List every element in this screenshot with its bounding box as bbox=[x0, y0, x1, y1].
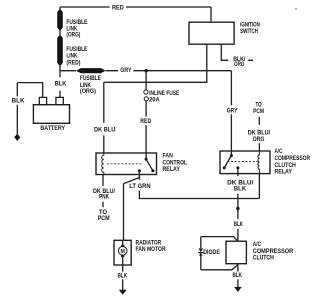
relay K1 pivot contact bbox=[145, 158, 148, 161]
svg-text:(ORG): (ORG) bbox=[66, 32, 80, 39]
wire diode loop bbox=[201, 237, 238, 270]
svg-text:ORG: ORG bbox=[234, 61, 245, 68]
relay K1 output contact bbox=[138, 169, 141, 172]
svg-text:BLK: BLK bbox=[234, 186, 247, 193]
wire between links bbox=[59, 30, 61, 35]
svg-text:RELAY: RELAY bbox=[275, 169, 293, 176]
relay K1 switch lever bbox=[146, 159, 153, 170]
relay K2 lever end contact bbox=[223, 166, 226, 169]
wire ignition to fan relay coil bbox=[104, 44, 207, 153]
svg-text:GRY: GRY bbox=[120, 67, 132, 74]
svg-text:BLK: BLK bbox=[55, 80, 67, 87]
A/C compressor clutch L1 box bbox=[226, 241, 246, 264]
svg-text:BLK: BLK bbox=[118, 273, 128, 280]
A/C compressor clutch relay K2 box bbox=[220, 151, 270, 174]
motor M1 brush top bbox=[121, 245, 124, 247]
wire fuse feed bbox=[145, 71, 147, 160]
relay K2 output contact bbox=[236, 166, 239, 169]
wire battery ground BLK bbox=[17, 83, 42, 135]
node J1 fuse tap bbox=[144, 69, 147, 72]
svg-text:ORG: ORG bbox=[253, 136, 265, 143]
svg-text:BLK: BLK bbox=[234, 221, 243, 228]
wire RED top feed bbox=[60, 7, 211, 22]
relay K2 coil bbox=[258, 151, 259, 174]
svg-text:CLUTCH: CLUTCH bbox=[253, 254, 274, 261]
ground G2 motor bbox=[119, 290, 127, 295]
svg-text:LT GRN: LT GRN bbox=[129, 183, 151, 190]
svg-text:DIODE: DIODE bbox=[203, 249, 220, 256]
wire LT GRN branch bbox=[124, 171, 260, 240]
wire BLK/ORG offpage bbox=[221, 44, 253, 60]
diode D1 bbox=[198, 248, 203, 252]
svg-text:RED: RED bbox=[112, 5, 124, 12]
wire clutch BLK ground bbox=[237, 264, 239, 287]
svg-text:COMPRESSOR: COMPRESSOR bbox=[275, 155, 311, 162]
svg-text:FUSIBLE: FUSIBLE bbox=[80, 75, 101, 82]
radiator fan motor M1 box bbox=[114, 240, 131, 265]
wire motor stubs bbox=[122, 240, 124, 265]
svg-text:BLK: BLK bbox=[12, 98, 25, 105]
svg-text:BATTERY: BATTERY bbox=[40, 125, 65, 132]
motor M1 brush bottom bbox=[121, 255, 124, 257]
node top-right smudge bbox=[295, 8, 297, 10]
fan control relay K1 box bbox=[96, 153, 157, 175]
wire DK BLU/BLK relay out bbox=[237, 168, 239, 241]
svg-text:RELAY: RELAY bbox=[163, 166, 181, 173]
svg-text:GRY: GRY bbox=[227, 107, 238, 114]
wire DK BLU/PNK to PCM bbox=[102, 175, 104, 208]
relay K1 lever end contact bbox=[151, 169, 154, 172]
svg-text:PCM: PCM bbox=[253, 108, 264, 115]
svg-text:FAN: FAN bbox=[163, 153, 174, 160]
wire motor BLK ground bbox=[122, 265, 124, 290]
svg-text:(RED): (RED) bbox=[66, 59, 80, 66]
wire GRY horizontal bbox=[60, 70, 231, 72]
relay K1 dashed link bbox=[107, 163, 142, 165]
svg-text:A/C: A/C bbox=[275, 148, 283, 155]
inline fuse F4 20A bbox=[144, 90, 148, 94]
ground G1 battery bbox=[14, 134, 20, 141]
svg-text:PNK: PNK bbox=[99, 193, 109, 200]
ignition switch S1 bbox=[189, 22, 234, 44]
ground G3 clutch bbox=[234, 287, 242, 292]
battery B1 bbox=[33, 105, 69, 124]
motor M1 circle bbox=[118, 247, 127, 256]
svg-text:20A: 20A bbox=[149, 96, 160, 103]
fusible link F3 (ORG) horizontal bar bbox=[76, 68, 106, 73]
fusible link F2 (RED) bar bbox=[57, 35, 63, 67]
svg-text:BLK: BLK bbox=[233, 272, 243, 279]
svg-text:(ORG): (ORG) bbox=[80, 88, 96, 95]
svg-text:RED: RED bbox=[140, 118, 151, 125]
relay K2 switch lever bbox=[224, 156, 231, 168]
wire GRY down to A/C relay bbox=[230, 71, 232, 156]
relay K2 dashed link bbox=[228, 161, 258, 163]
svg-text:SWITCH: SWITCH bbox=[240, 28, 258, 35]
relay K2 pivot contact bbox=[230, 154, 233, 157]
battery terminal - bbox=[56, 97, 63, 104]
battery terminal + bbox=[39, 97, 46, 104]
node J2 splice bbox=[236, 207, 239, 210]
svg-text:PCM: PCM bbox=[98, 215, 110, 222]
relay K1 coil bbox=[102, 153, 104, 175]
wire DK BLU/ORG coil to PCM bbox=[258, 117, 260, 151]
fusible link F1 (ORG) bar bbox=[57, 9, 63, 31]
svg-text:FAN MOTOR: FAN MOTOR bbox=[136, 246, 167, 253]
wire link to junction bbox=[59, 66, 61, 97]
svg-text:M: M bbox=[120, 249, 125, 255]
svg-text:DK BLU: DK BLU bbox=[94, 126, 116, 133]
